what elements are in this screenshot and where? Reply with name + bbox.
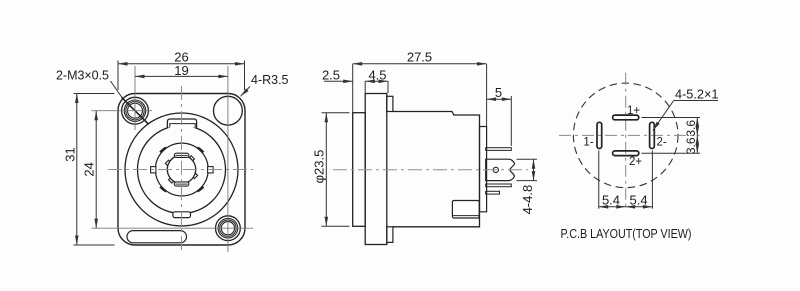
top-left screw M3 xyxy=(122,97,149,124)
main round body circle xyxy=(125,113,238,226)
svg-text:31: 31 xyxy=(62,147,77,161)
svg-text:4-5.2×1: 4-5.2×1 xyxy=(675,87,719,102)
centerline vertical front view xyxy=(181,86,183,252)
centerline horizontal front view xyxy=(108,169,253,171)
centerline vertical pcb xyxy=(625,73,627,209)
svg-text:27.5: 27.5 xyxy=(407,50,432,65)
terminal hole xyxy=(493,167,498,172)
centerline side view xyxy=(333,169,528,171)
bottom-left slot (stadium) xyxy=(127,231,187,243)
pin 4 (short, edge view) xyxy=(486,191,500,194)
dimension 27.5 xyxy=(353,64,487,126)
svg-text:5.4: 5.4 xyxy=(630,193,648,208)
right contact rect xyxy=(208,167,214,173)
dimension 24 xyxy=(95,111,97,229)
svg-text:4.5: 4.5 xyxy=(368,68,386,83)
svg-text:1-: 1- xyxy=(583,136,593,148)
tick arcs on inner circle (4 diagonals) xyxy=(160,148,203,192)
svg-text:19: 19 xyxy=(174,63,188,78)
top rim tab xyxy=(387,96,393,111)
mounting box inner line xyxy=(452,215,479,217)
dimension 5 xyxy=(487,96,512,146)
centerline horizontal pcb xyxy=(559,134,700,136)
dimensions 5.4 / 5.4 xyxy=(599,151,653,209)
pad 2- (right) xyxy=(650,122,655,148)
bottom contact slot xyxy=(174,182,189,186)
svg-text:2-: 2- xyxy=(656,136,666,148)
bottom small tab xyxy=(173,212,191,218)
svg-text:1+: 1+ xyxy=(627,105,640,117)
dimension 4.5 xyxy=(365,81,388,93)
keyway notch upper-right on center hole xyxy=(188,156,195,163)
svg-text:24: 24 xyxy=(82,162,97,176)
body outline xyxy=(393,112,480,227)
svg-text:4-R3.5: 4-R3.5 xyxy=(251,72,289,87)
center hole xyxy=(167,155,195,183)
pin 3 (edge view) xyxy=(486,184,512,187)
dimension 4-4.8 xyxy=(517,159,538,180)
screw slot line xyxy=(122,97,149,124)
flange plate (rounded square) xyxy=(118,94,245,246)
dimension 19 xyxy=(135,75,228,77)
left contact rect xyxy=(151,167,156,173)
pad 1- (left) xyxy=(597,122,602,148)
top latch tab inner line xyxy=(170,124,195,128)
front bezel xyxy=(353,113,366,227)
pad 1+ (top) xyxy=(613,115,639,120)
top contact slot xyxy=(174,153,189,157)
svg-text:2.5: 2.5 xyxy=(322,68,340,83)
svg-text:4-4.8: 4-4.8 xyxy=(520,185,535,215)
flat terminal with hole xyxy=(486,159,515,180)
keyway notch lower-left on center hole xyxy=(169,177,176,184)
svg-text:2-M3×0.5: 2-M3×0.5 xyxy=(56,68,109,83)
dimensions 3.6 / 3.6 xyxy=(642,118,701,154)
pin 1 (edge view) xyxy=(486,148,512,151)
pad 2+ (bottom) xyxy=(613,151,639,156)
bottom-right mounting box xyxy=(452,201,479,219)
svg-text:2+: 2+ xyxy=(629,156,642,168)
flange plate side xyxy=(365,94,387,245)
svg-text:3.6: 3.6 xyxy=(684,120,698,137)
svg-text:3.6: 3.6 xyxy=(684,137,698,154)
centerline TL screw horizontal xyxy=(92,110,153,112)
ring inner circle xyxy=(155,143,208,196)
bottom-right screw M3 xyxy=(216,216,241,241)
ring outer circle xyxy=(138,126,226,214)
dimension 31 xyxy=(74,94,115,246)
leader 2-M3x0.5 xyxy=(111,81,123,98)
terminal block xyxy=(480,127,487,212)
svg-text:5.4: 5.4 xyxy=(602,193,620,208)
dashed circle xyxy=(573,83,678,188)
centerline BR screw horizontal (also ext of dim 24) xyxy=(92,227,254,229)
dimension 26 xyxy=(118,61,245,91)
bottom rim tab xyxy=(387,227,393,243)
keyway notch upper-left on center hole xyxy=(165,160,172,167)
centerline BR screw vertical (also ext of dim 19) xyxy=(227,66,229,252)
leader 4-R3.5 xyxy=(241,87,251,97)
svg-text:φ23.5: φ23.5 xyxy=(311,150,326,184)
centerline TL screw vertical xyxy=(134,66,136,130)
dimension 2.5 xyxy=(324,80,353,82)
top-right corner hole xyxy=(214,96,243,125)
keyway notch lower-right on center hole xyxy=(191,172,198,179)
svg-text:P.C.B LAYOUT(TOP VIEW): P.C.B LAYOUT(TOP VIEW) xyxy=(561,226,692,241)
svg-text:5: 5 xyxy=(495,85,502,100)
top latch tab xyxy=(167,119,196,128)
dimension phi 23.5 xyxy=(322,113,350,227)
